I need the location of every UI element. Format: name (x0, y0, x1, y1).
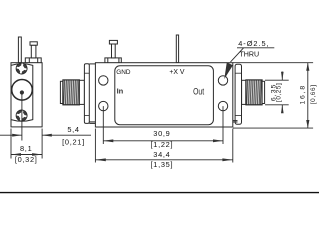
svg-text:34,4: 34,4 (153, 150, 170, 159)
svg-text:[1,35]: [1,35] (151, 160, 174, 169)
svg-text:In: In (117, 87, 124, 96)
svg-text:16,8: 16,8 (300, 84, 307, 104)
svg-text:GND: GND (116, 69, 131, 76)
svg-text:+X V: +X V (169, 69, 185, 76)
svg-text:30,9: 30,9 (153, 129, 170, 138)
svg-text:4-Ø2.5,: 4-Ø2.5, (238, 39, 269, 48)
svg-text:[1,22]: [1,22] (151, 140, 174, 149)
svg-text:8,1: 8,1 (20, 144, 32, 153)
svg-text:[0,21]: [0,21] (62, 137, 85, 146)
svg-text:THRU: THRU (239, 51, 259, 59)
svg-text:[0,25]: [0,25] (275, 83, 282, 102)
svg-text:[0,66]: [0,66] (310, 84, 317, 104)
svg-text:Out: Out (193, 87, 204, 97)
svg-text:[0,32]: [0,32] (15, 155, 38, 164)
svg-text:5,4: 5,4 (67, 125, 79, 134)
